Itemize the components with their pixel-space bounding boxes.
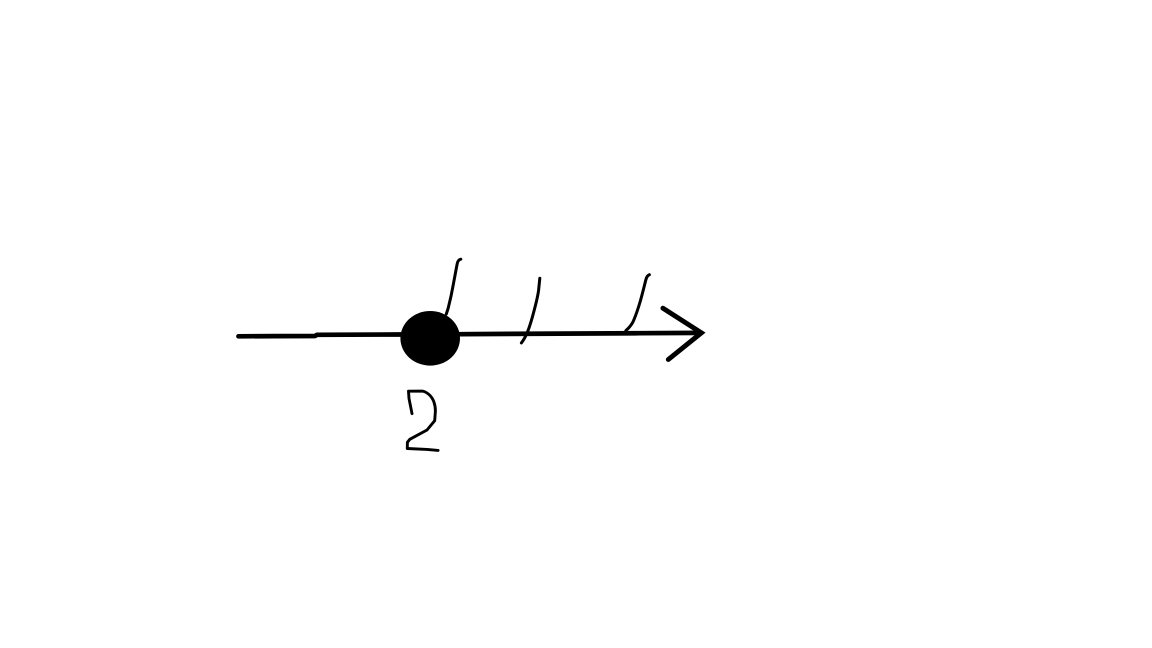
label 2	[407, 391, 438, 450]
tick mark 1	[446, 259, 461, 314]
tick mark 2	[521, 278, 539, 343]
tick mark 3	[626, 275, 650, 331]
node 2 (filled point)	[400, 311, 460, 366]
wire number line	[239, 333, 701, 336]
arrow head	[663, 308, 702, 359]
